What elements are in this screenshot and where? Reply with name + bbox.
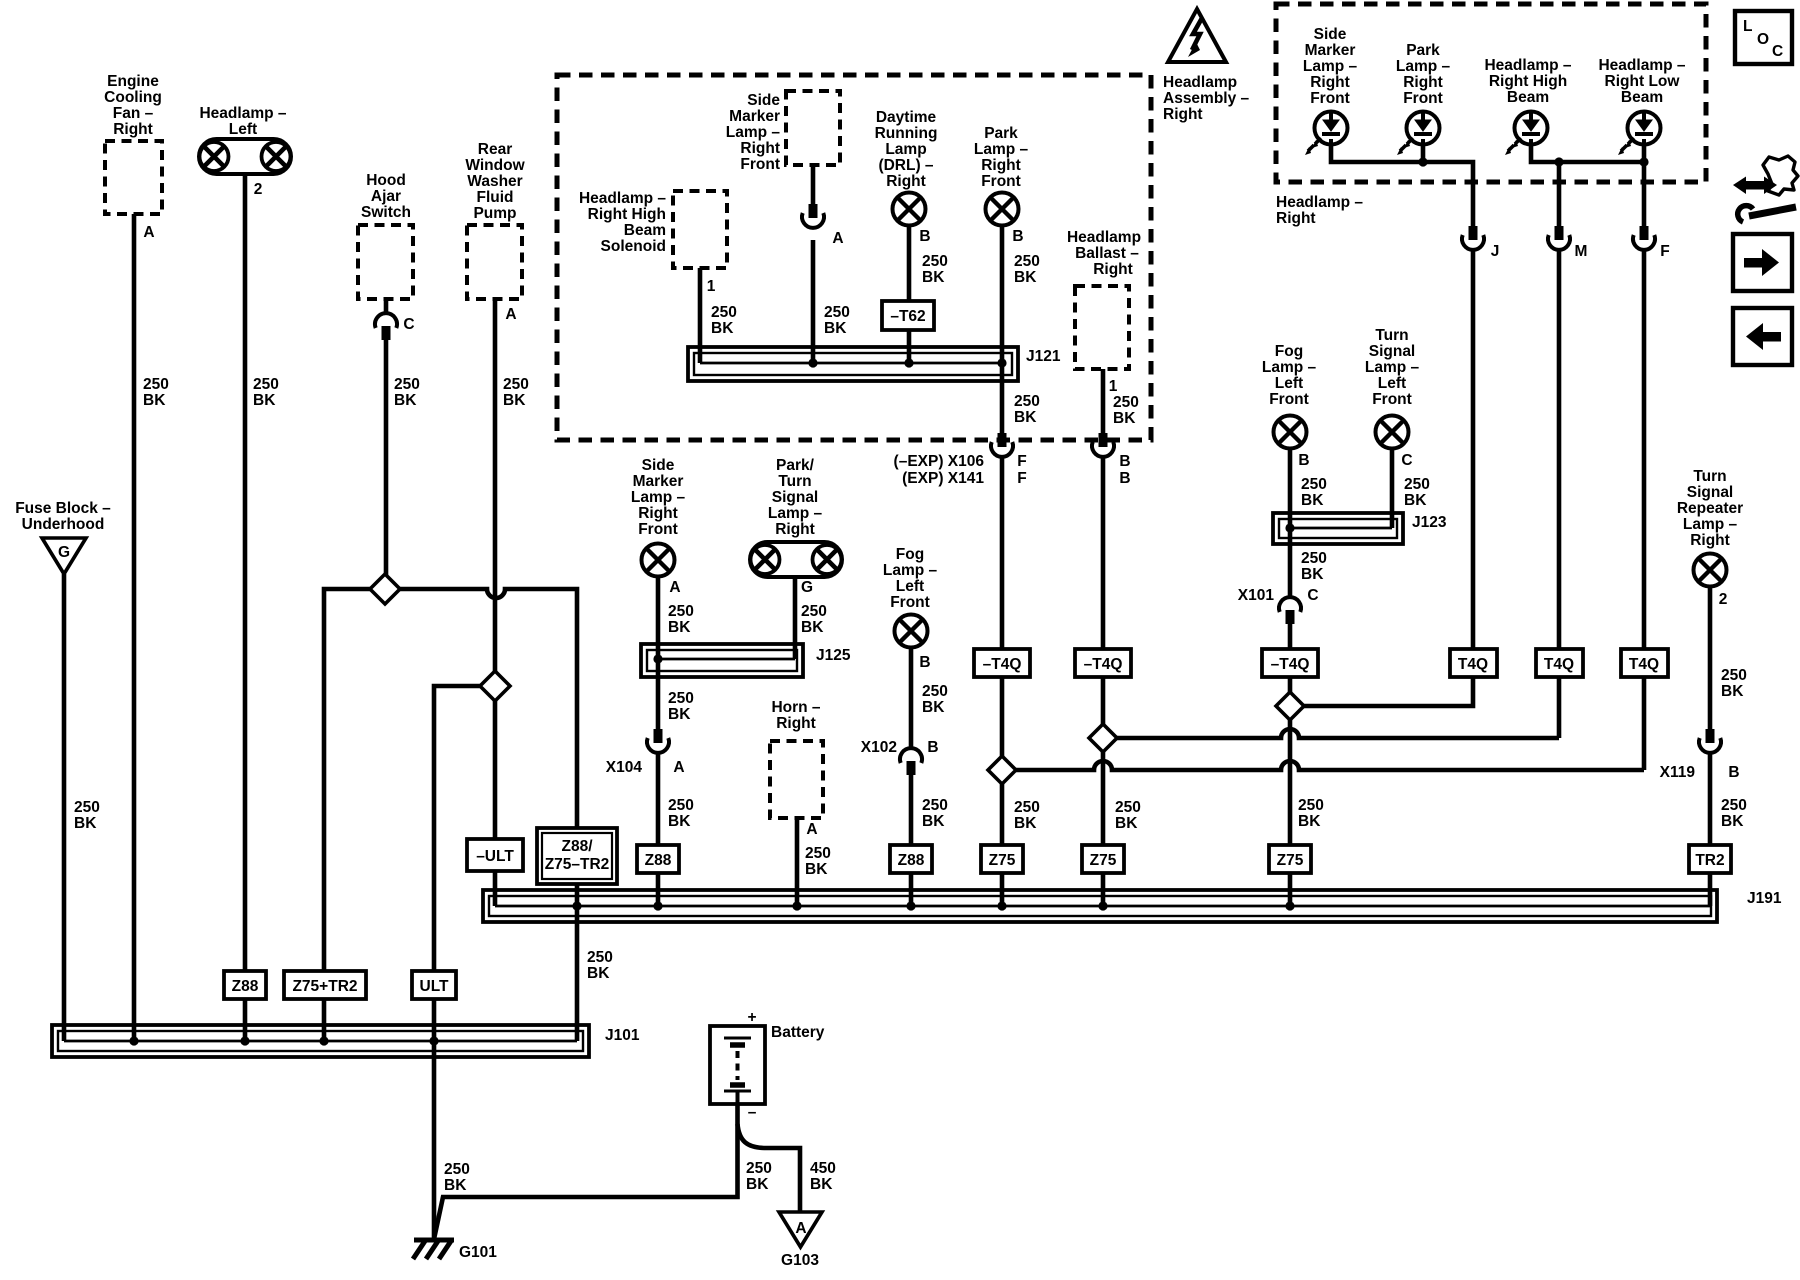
svg-text:Underhood: Underhood — [22, 516, 105, 533]
svg-text:BK: BK — [143, 392, 166, 409]
svg-text:BK: BK — [668, 619, 691, 636]
svg-text:X101: X101 — [1238, 587, 1275, 604]
svg-text:250: 250 — [1113, 394, 1139, 411]
svg-text:Lamp –: Lamp – — [1262, 359, 1317, 376]
svg-text:Beam: Beam — [624, 222, 666, 239]
headlamp right dashed box (top right) — [1276, 4, 1706, 182]
svg-text:250: 250 — [668, 603, 694, 620]
svg-text:T4Q: T4Q — [1629, 656, 1659, 673]
svg-text:Right: Right — [1163, 106, 1203, 123]
svg-text:BK: BK — [711, 320, 734, 337]
svg-text:B: B — [927, 739, 938, 756]
svg-text:Fluid: Fluid — [476, 189, 513, 206]
svg-text:BK: BK — [1113, 410, 1136, 427]
svg-text:BK: BK — [922, 699, 945, 716]
svg-text:Ajar: Ajar — [371, 188, 401, 205]
svg-text:Right: Right — [886, 173, 926, 190]
svg-text:Window: Window — [465, 157, 525, 174]
J123 internal wire and junction dot — [1285, 523, 1392, 532]
svg-text:Headlamp –: Headlamp – — [199, 105, 286, 122]
connector X106/X141 pin F (park wire) — [991, 433, 1013, 457]
svg-text:Front: Front — [981, 173, 1021, 190]
svg-text:F: F — [1660, 243, 1669, 260]
ground G101 symbol — [413, 1240, 454, 1259]
right arrow legend box — [1733, 234, 1792, 291]
svg-text:2: 2 — [254, 181, 263, 198]
svg-text:Headlamp –: Headlamp – — [1276, 194, 1363, 211]
svg-text:Repeater: Repeater — [1677, 500, 1743, 517]
LOC legend box — [1735, 11, 1792, 64]
svg-text:250: 250 — [1014, 393, 1040, 410]
svg-text:Right: Right — [1276, 210, 1316, 227]
svg-text:B: B — [1119, 453, 1130, 470]
wire J123 to connector X101 — [1288, 528, 1293, 599]
svg-text:J125: J125 — [816, 647, 851, 664]
wire battery negative to ground G101 — [434, 1104, 738, 1239]
wire label 250 BK (ballast) — [1113, 394, 1139, 427]
wire label 250 BK (park) — [1014, 253, 1040, 286]
splice diamond washer — [480, 671, 510, 701]
svg-text:J101: J101 — [605, 1027, 640, 1044]
svg-text:Headlamp –: Headlamp – — [1598, 57, 1685, 74]
circuit box T4Q (M wire) — [1536, 649, 1583, 677]
svg-text:Side: Side — [1314, 26, 1347, 43]
label headlamp right low beam — [1598, 57, 1685, 106]
svg-text:Hood: Hood — [366, 172, 406, 189]
ground G103 triangle A — [779, 1212, 822, 1247]
svg-text:G101: G101 — [459, 1244, 497, 1261]
label side marker lamp right front (middle) — [631, 457, 686, 538]
connector A side marker right front (pin stub and cup) — [802, 204, 824, 228]
svg-text:250: 250 — [801, 603, 827, 620]
svg-text:Running: Running — [875, 125, 938, 142]
svg-text:BK: BK — [1721, 813, 1744, 830]
svg-text:Left: Left — [1378, 375, 1406, 392]
svg-text:Turn: Turn — [1693, 468, 1726, 485]
svg-text:Z88: Z88 — [232, 978, 259, 995]
wire high beam solenoid to J121 — [698, 268, 703, 363]
svg-text:BK: BK — [805, 861, 828, 878]
wire daytime running lamp through -T62 to J121 — [907, 225, 912, 363]
label headlamp left — [199, 105, 286, 138]
circuit box Z75+TR2 — [284, 971, 366, 999]
svg-text:Z75+TR2: Z75+TR2 — [292, 978, 357, 995]
connector bar J191 — [483, 890, 1717, 922]
splice diamond fog wire — [1276, 692, 1304, 720]
svg-text:BK: BK — [810, 1176, 833, 1193]
wire connector C to splice diamond — [384, 340, 389, 576]
svg-text:Right: Right — [1093, 261, 1133, 278]
svg-text:Z88/: Z88/ — [561, 838, 593, 855]
label headlamp right — [1276, 194, 1363, 227]
headlamp ballast right dashed box — [1075, 286, 1129, 369]
svg-text:BK: BK — [668, 706, 691, 723]
svg-text:Beam: Beam — [1621, 89, 1663, 106]
svg-text:250: 250 — [394, 376, 420, 393]
circuit box Z88 (fog) — [890, 845, 932, 873]
connector C hood ajar switch (dome and stub) — [375, 313, 397, 340]
wire M branch from bus to connector M — [1557, 162, 1562, 228]
svg-text:Left: Left — [229, 121, 257, 138]
svg-text:Horn –: Horn – — [771, 699, 820, 716]
wire hood ajar switch to connector C — [384, 299, 389, 315]
circuit box -ULT — [467, 839, 523, 871]
svg-text:TR2: TR2 — [1695, 852, 1724, 869]
splice diamond park/F wire — [988, 756, 1016, 784]
svg-text:Lamp –: Lamp – — [883, 562, 938, 579]
label headlamp assembly right (warning) — [1163, 74, 1250, 123]
svg-text:C: C — [1307, 587, 1318, 604]
svg-text:250: 250 — [668, 797, 694, 814]
svg-text:Front: Front — [1269, 391, 1309, 408]
wire label 250 BK (side marker below J125) — [668, 690, 694, 723]
wire X141 to -T4Q to splice — [1101, 457, 1106, 724]
svg-text:Z88: Z88 — [898, 852, 925, 869]
wire X101 to -T4Q — [1288, 624, 1293, 650]
svg-text:BK: BK — [1014, 409, 1037, 426]
wire label 250 BK (fuse block) — [74, 799, 100, 832]
svg-text:Lamp –: Lamp – — [726, 124, 781, 141]
svg-text:Lamp –: Lamp – — [974, 141, 1029, 158]
wire label 250 BK (fan) — [143, 376, 169, 409]
svg-text:Front: Front — [890, 594, 930, 611]
svg-text:B: B — [919, 654, 930, 671]
svg-text:250: 250 — [746, 1160, 772, 1177]
svg-text:250: 250 — [1404, 476, 1430, 493]
svg-text:Park/: Park/ — [776, 457, 815, 474]
wire turn signal repeater lamp to connector X119 — [1708, 586, 1713, 731]
svg-text:Right High: Right High — [588, 206, 666, 223]
label headlamp right high beam — [1484, 57, 1571, 106]
svg-text:Signal: Signal — [772, 489, 819, 506]
wire X102 to Z88 to J191 — [909, 775, 914, 906]
circuit box -T4Q (ballast wire) — [1075, 649, 1131, 677]
svg-text:Signal: Signal — [1369, 343, 1416, 360]
svg-text:BK: BK — [1301, 566, 1324, 583]
rear window washer fluid pump dashed box — [467, 225, 522, 299]
svg-text:Fog: Fog — [896, 546, 924, 563]
wire F horizontal to park splice (hops over ballast and fog wires) — [1015, 761, 1644, 770]
wire label 250 BK (repeater lower) — [1721, 797, 1747, 830]
label fog lamp left front (right) — [1262, 343, 1317, 408]
svg-text:Front: Front — [1310, 90, 1350, 107]
wire label 250 BK (fog middle upper) — [922, 683, 948, 716]
wire label 250 BK (horn) — [805, 845, 831, 878]
turn signal repeater lamp symbol — [1694, 554, 1727, 587]
horn right dashed box — [770, 741, 823, 818]
J191 internal wire and junction dots — [495, 901, 1710, 910]
svg-text:BK: BK — [1014, 815, 1037, 832]
connector X104 side marker — [647, 729, 669, 753]
hood ajar switch dashed box — [358, 225, 413, 299]
wire -T4Q to splice — [1288, 677, 1293, 692]
svg-text:B: B — [1728, 764, 1739, 781]
wire T4Q to fog splice — [1303, 677, 1473, 706]
left arrow legend box — [1733, 308, 1792, 365]
wire label 250 BK (fog right upper) — [1301, 476, 1327, 509]
svg-text:G: G — [801, 579, 813, 596]
svg-text:–: – — [748, 1104, 757, 1121]
label connector X106/X141 — [894, 453, 985, 487]
svg-text:Battery: Battery — [771, 1024, 825, 1041]
svg-text:Headlamp –: Headlamp – — [579, 190, 666, 207]
svg-text:BK: BK — [922, 269, 945, 286]
svg-text:BK: BK — [394, 392, 417, 409]
splice diamond hood ajar — [370, 574, 400, 604]
wire fuse block to J101 — [62, 574, 67, 1041]
svg-text:J: J — [1491, 243, 1500, 260]
svg-text:Lamp –: Lamp – — [1683, 516, 1738, 533]
wire label 250 BK (Z88/Z75-TR2 wire) — [587, 949, 613, 982]
wire headlamp ballast to connector X141 — [1101, 369, 1106, 435]
side marker lamp right front symbol (middle) — [642, 544, 675, 577]
headlamp left stadium lamp — [199, 139, 291, 174]
svg-text:250: 250 — [668, 690, 694, 707]
label horn right — [771, 699, 820, 732]
service info icon (double arrow, outline, wrench) — [1733, 156, 1798, 222]
node bus junction M — [1554, 157, 1563, 166]
svg-text:BK: BK — [1301, 492, 1324, 509]
svg-text:BK: BK — [1115, 815, 1138, 832]
label hood ajar switch — [361, 172, 411, 221]
wire side marker lamp right front to connector A — [811, 165, 816, 206]
svg-text:BK: BK — [74, 815, 97, 832]
connector X102 fog lamp middle — [900, 748, 922, 775]
svg-text:L: L — [1743, 18, 1752, 35]
circuit box Z88/Z75-TR2 — [537, 828, 617, 884]
svg-text:ULT: ULT — [420, 978, 450, 995]
svg-text:Right: Right — [775, 521, 815, 538]
headlamp right high beam solenoid dashed box — [673, 191, 727, 268]
svg-text:Lamp –: Lamp – — [768, 505, 823, 522]
svg-text:Right: Right — [1310, 74, 1350, 91]
wire label 250 BK (DRL) — [922, 253, 948, 286]
node bus junction low beam — [1639, 157, 1648, 166]
svg-text:Daytime: Daytime — [876, 109, 937, 126]
svg-text:250: 250 — [143, 376, 169, 393]
wire turn signal lamp left front to J123 — [1390, 448, 1395, 528]
svg-text:Front: Front — [740, 156, 780, 173]
svg-text:BK: BK — [1298, 813, 1321, 830]
svg-text:1: 1 — [707, 278, 716, 295]
wire label 250 BK (side marker lower) — [668, 797, 694, 830]
svg-text:Headlamp: Headlamp — [1163, 74, 1237, 91]
svg-text:Side: Side — [747, 92, 780, 109]
wire T4Q down to M horizontal — [1557, 677, 1562, 738]
wire label 250 BK (headlamp left) — [253, 376, 279, 409]
svg-text:J191: J191 — [1747, 890, 1782, 907]
svg-text:Lamp –: Lamp – — [1365, 359, 1420, 376]
svg-text:Turn: Turn — [1375, 327, 1408, 344]
wire fog lamp left front (middle) to connector X102 — [909, 647, 914, 750]
park lamp right front bulb (assembly top right) — [1397, 112, 1440, 156]
svg-text:BK: BK — [801, 619, 824, 636]
wire connector J to T4Q — [1471, 250, 1476, 650]
svg-text:250: 250 — [444, 1161, 470, 1178]
warning triangle with lightning bolt — [1168, 9, 1226, 62]
daytime running lamp DRL symbol — [893, 193, 926, 226]
wire X106 to -T4Q to splice — [1000, 457, 1005, 756]
circuit box -T4Q (fog wire) — [1262, 649, 1318, 677]
svg-text:BK: BK — [587, 965, 610, 982]
svg-text:BK: BK — [824, 320, 847, 337]
circuit box -T4Q (park wire) — [974, 649, 1030, 677]
connector X106/X141 pin B (ballast wire) — [1092, 433, 1114, 457]
svg-text:Right: Right — [776, 715, 816, 732]
park/turn signal lamp right stadium — [750, 542, 842, 577]
svg-text:250: 250 — [74, 799, 100, 816]
svg-text:Fan –: Fan – — [113, 105, 154, 122]
label rear window washer fluid pump — [465, 141, 525, 222]
svg-text:Right: Right — [638, 505, 678, 522]
svg-text:250: 250 — [1014, 253, 1040, 270]
svg-text:1: 1 — [1109, 378, 1118, 395]
circuit box Z88 (headlamp left wire) — [224, 971, 266, 999]
svg-text:X119: X119 — [1660, 764, 1696, 781]
wire connector F to T4Q — [1642, 250, 1647, 650]
svg-text:250: 250 — [1721, 797, 1747, 814]
wire label 250 BK (turn signal) — [1404, 476, 1430, 509]
svg-text:J123: J123 — [1412, 514, 1447, 531]
svg-text:Side: Side — [642, 457, 675, 474]
svg-text:Front: Front — [1403, 90, 1443, 107]
connector bar J101 — [52, 1025, 589, 1057]
svg-text:BK: BK — [668, 813, 691, 830]
svg-text:BK: BK — [444, 1177, 467, 1194]
turn signal lamp left front symbol — [1376, 416, 1409, 449]
svg-text:Fuse Block –: Fuse Block – — [15, 500, 111, 517]
circuit box ULT — [412, 971, 456, 999]
wire label 250 BK (side marker assembly) — [824, 304, 850, 337]
wire splice to Z75+TR2 to J101 — [324, 589, 372, 1041]
headlamp right high beam bulb — [1505, 112, 1548, 156]
circuit box T4Q (F wire) — [1621, 649, 1668, 677]
svg-text:Rear: Rear — [478, 141, 512, 158]
J101 internal wire and junction dots — [64, 1036, 577, 1045]
svg-text:250: 250 — [1014, 799, 1040, 816]
svg-text:A: A — [806, 821, 817, 838]
svg-text:A: A — [832, 230, 843, 247]
svg-text:A: A — [669, 579, 680, 596]
svg-text:Headlamp: Headlamp — [1067, 229, 1141, 246]
svg-text:A: A — [143, 224, 154, 241]
svg-text:250: 250 — [1301, 476, 1327, 493]
wire label 250 BK (washer) — [503, 376, 529, 409]
wire side marker right front (assembly) to bus to J — [1331, 145, 1473, 228]
svg-text:BK: BK — [746, 1176, 769, 1193]
connector J headlamp right — [1462, 226, 1484, 250]
label daytime running lamp — [875, 109, 938, 190]
svg-text:–T62: –T62 — [890, 308, 925, 325]
svg-text:T4Q: T4Q — [1544, 656, 1574, 673]
wire washer splice down through -ULT to J191 — [493, 699, 498, 906]
circuit box Z75 (fog wire) — [1269, 845, 1311, 873]
wire rear window washer pump down — [493, 299, 498, 673]
svg-text:BK: BK — [1721, 683, 1744, 700]
svg-text:Lamp –: Lamp – — [1396, 58, 1451, 75]
svg-text:250: 250 — [824, 304, 850, 321]
svg-text:BK: BK — [503, 392, 526, 409]
wire label 250 BK (hood ajar) — [394, 376, 420, 409]
connector X119 repeater — [1699, 729, 1721, 753]
svg-text:Washer: Washer — [467, 173, 522, 190]
svg-text:2: 2 — [1719, 591, 1728, 608]
wire headlamp low beam to connector F — [1642, 145, 1647, 228]
circuit box Z75 (ballast wire) — [1082, 845, 1124, 873]
svg-text:C: C — [1772, 43, 1783, 60]
wire park lamp right front to J121 and down to connector X106 — [1000, 225, 1005, 435]
fog lamp left front symbol (middle) — [895, 615, 928, 648]
wire connector A to J121 — [811, 240, 816, 363]
wire M horizontal to ballast splice (hop over fog wire) — [1116, 729, 1559, 738]
J125 internal wire and junction dot — [653, 654, 795, 663]
svg-text:F: F — [1017, 453, 1026, 470]
fuse block underhood triangle G — [42, 538, 86, 574]
circuit box T4Q (J wire) — [1450, 649, 1497, 677]
label park/turn signal lamp right — [768, 457, 823, 538]
svg-text:Headlamp –: Headlamp – — [1484, 57, 1571, 74]
svg-text:Right: Right — [113, 121, 153, 138]
side marker lamp right front bulb (assembly top right) — [1305, 112, 1348, 156]
svg-text:250: 250 — [805, 845, 831, 862]
wire side marker lamp (middle) to J125 — [656, 576, 661, 659]
svg-text:Z75–TR2: Z75–TR2 — [545, 856, 610, 873]
wire T4Q down to F horizontal — [1642, 677, 1647, 770]
circuit box Z75 (park wire) — [981, 845, 1023, 873]
svg-text:Park: Park — [984, 125, 1018, 142]
svg-text:Assembly –: Assembly – — [1163, 90, 1250, 107]
svg-text:450: 450 — [810, 1160, 836, 1177]
svg-text:G: G — [58, 544, 70, 561]
svg-text:Z75: Z75 — [1277, 852, 1304, 869]
wire label 250 BK (battery ground) — [746, 1160, 772, 1193]
svg-text:Front: Front — [1372, 391, 1412, 408]
wire headlamp high beam to bus to low beam — [1531, 145, 1644, 162]
svg-text:J121: J121 — [1026, 348, 1061, 365]
wire label 250 BK (park/turn) — [801, 603, 827, 636]
svg-text:Marker: Marker — [729, 108, 780, 125]
svg-text:BK: BK — [253, 392, 276, 409]
label fuse block underhood — [15, 500, 111, 533]
svg-text:A: A — [505, 306, 516, 323]
svg-text:Lamp –: Lamp – — [1303, 58, 1358, 75]
connector bar J123 — [1273, 513, 1403, 544]
splice diamond ballast/B wire — [1089, 724, 1117, 752]
svg-text:BK: BK — [922, 813, 945, 830]
svg-text:Right: Right — [1690, 532, 1730, 549]
wire battery positive stub — [735, 1026, 740, 1037]
svg-text:Beam: Beam — [1507, 89, 1549, 106]
svg-text:250: 250 — [1721, 667, 1747, 684]
wire connector M to T4Q — [1557, 250, 1562, 650]
label headlamp ballast right — [1067, 229, 1141, 278]
svg-text:(–EXP) X106: (–EXP) X106 — [894, 453, 985, 470]
svg-text:G103: G103 — [781, 1252, 819, 1269]
wire label 250 BK (G101 wire) — [444, 1161, 470, 1194]
label side marker lamp right front (assembly) — [726, 92, 781, 173]
svg-text:A: A — [673, 759, 684, 776]
wire label 250 BK (fog middle lower) — [922, 797, 948, 830]
svg-text:250: 250 — [1298, 797, 1324, 814]
svg-text:Cooling: Cooling — [104, 89, 162, 106]
label park lamp right front (assembly) — [974, 125, 1029, 190]
svg-text:F: F — [1017, 470, 1026, 487]
wire label 250 BK (park wire lower) — [1014, 799, 1040, 832]
svg-text:Park: Park — [1406, 42, 1440, 59]
svg-text:Lamp: Lamp — [885, 141, 926, 158]
headlamp right low beam bulb — [1618, 112, 1661, 156]
wire X119 to TR2 to J191 — [1708, 753, 1713, 906]
